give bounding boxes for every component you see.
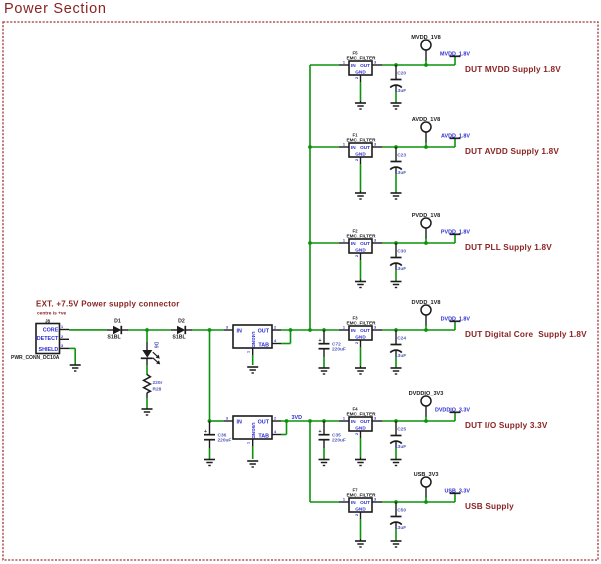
svg-text:1: 1 [343, 239, 345, 243]
svg-text:GND: GND [251, 428, 256, 439]
note centre is +ve [37, 311, 67, 317]
svg-text:IN: IN [237, 329, 242, 335]
capacitor C35 220uF [319, 421, 346, 466]
junction rail row5 [308, 419, 312, 423]
svg-text:EMC_FILTER: EMC_FILTER [346, 234, 376, 239]
svg-text:OUT: OUT [360, 145, 370, 150]
svg-text:C50: C50 [397, 508, 406, 514]
svg-text:AVDD_1.8V: AVDD_1.8V [441, 134, 470, 140]
junction power flag DVDDIO_3V3 [424, 419, 428, 423]
junction LED branch [145, 328, 149, 332]
svg-text:GND: GND [355, 426, 366, 431]
svg-text:1: 1 [343, 143, 345, 147]
junction C36 tap [208, 419, 212, 423]
svg-text:2: 2 [61, 335, 63, 339]
wire U5 TAB loop [281, 421, 287, 435]
svg-text:GND: GND [355, 335, 366, 340]
wire F2 OUT to net [382, 242, 455, 244]
svg-text:USB Supply: USB Supply [465, 502, 514, 511]
label PWR_CONN_DC10A [11, 355, 60, 361]
wire F5 OUT to net [382, 64, 455, 66]
svg-text:2: 2 [274, 417, 276, 421]
EMC filter F2 [339, 229, 382, 258]
ground F2 [355, 253, 366, 288]
svg-text:3: 3 [374, 326, 376, 330]
svg-text:C24: C24 [397, 336, 406, 342]
svg-text:4: 4 [274, 430, 277, 434]
svg-text:2: 2 [355, 342, 359, 344]
svg-text:1: 1 [343, 498, 345, 502]
svg-text:EMC_FILTER: EMC_FILTER [346, 493, 376, 498]
wire rail to F7 IN [310, 501, 339, 503]
regulator U5 [224, 416, 281, 446]
svg-text:MVDD_1.8V: MVDD_1.8V [440, 52, 470, 58]
svg-text:IN: IN [351, 500, 356, 505]
svg-text:EMC_FILTER: EMC_FILTER [346, 412, 376, 417]
wire R28 to ground [146, 393, 148, 409]
ground F1 [355, 157, 366, 199]
wire F3 OUT to net [382, 329, 455, 331]
svg-text:TAB: TAB [258, 343, 269, 349]
svg-text:C23: C23 [397, 153, 406, 159]
svg-text:220uF: 220uF [332, 347, 346, 353]
svg-text:1: 1 [343, 326, 345, 330]
svg-text:2: 2 [355, 255, 359, 257]
wire rail to F2 IN [310, 242, 339, 244]
svg-text:CORE: CORE [43, 328, 59, 334]
capacitor C36 220uF [204, 421, 231, 466]
wire F1 OUT to net [382, 146, 455, 148]
svg-text:3: 3 [226, 326, 228, 330]
svg-text:3: 3 [374, 498, 376, 502]
wire vertical rail 1V8 [309, 65, 311, 330]
svg-text:3: 3 [374, 143, 376, 147]
svg-text:220uF: 220uF [332, 438, 346, 444]
svg-text:centre is +ve: centre is +ve [37, 311, 67, 317]
svg-text:1: 1 [61, 325, 63, 329]
EMC filter F1 [339, 133, 382, 162]
junction power flag MVDD_1V8 [424, 63, 428, 67]
junction U5 TAB-OUT [285, 419, 289, 423]
svg-text:DVDDIO_3.3V: DVDDIO_3.3V [435, 408, 470, 414]
wire junction to LED D6 [146, 330, 148, 342]
power flag DVDDIO_3V3 [409, 391, 444, 421]
junction cap C50 [394, 500, 398, 504]
svg-text:3: 3 [374, 61, 376, 65]
wire U4 TAB loop [281, 330, 291, 344]
junction power flag AVDD_1V8 [424, 145, 428, 149]
svg-text:C20: C20 [397, 71, 406, 77]
net label AVDD_1.8V [441, 134, 470, 148]
power flag DVDD_1V8 [412, 300, 441, 330]
ground J8 shield [70, 365, 81, 371]
junction power flag PVDD_1V8 [424, 241, 428, 245]
wire rail to F1 IN [310, 146, 339, 148]
ground F7 [355, 512, 366, 547]
junction cap C30 [394, 241, 398, 245]
svg-text:GND: GND [355, 248, 366, 253]
net label DVDD_1.8V [441, 317, 471, 331]
EMC filter F5 [339, 51, 382, 80]
svg-text:GND: GND [355, 507, 366, 512]
svg-text:D6: D6 [153, 342, 159, 349]
svg-text:DUT Digital Core Supply 1.8V: DUT Digital Core Supply 1.8V [465, 330, 587, 339]
svg-text:D2: D2 [178, 319, 185, 325]
svg-text:S1BL: S1BL [172, 335, 186, 341]
svg-text:1: 1 [343, 417, 345, 421]
svg-text:C36: C36 [218, 432, 227, 438]
wire J8 shield to ground [69, 348, 75, 365]
svg-text:Power Section: Power Section [4, 1, 107, 17]
power flag AVDD_1V8 [412, 117, 441, 147]
wire U5 OUT 3VD [281, 420, 339, 422]
svg-text:EXT. +7.5V Power supply connec: EXT. +7.5V Power supply connector [36, 300, 180, 309]
junction rail row4 [308, 328, 312, 332]
label DUT MVDD Supply 1.8V [465, 65, 561, 74]
junction cap C25 [394, 419, 398, 423]
label DUT Digital Core Supply 1.8V [465, 330, 587, 339]
wire J8 CORE to D1 [69, 329, 107, 331]
junction cap C23 [394, 145, 398, 149]
svg-text:1: 1 [247, 351, 251, 353]
ground F4 [355, 431, 366, 466]
svg-text:OUT: OUT [258, 329, 270, 335]
junction rail row3 [308, 241, 312, 245]
svg-text:OUT: OUT [360, 328, 370, 333]
svg-text:2: 2 [355, 433, 359, 435]
capacitor C72 220uF [319, 330, 346, 374]
svg-text:R28: R28 [153, 386, 162, 392]
svg-text:DUT I/O Supply 3.3V: DUT I/O Supply 3.3V [465, 421, 548, 430]
wire LED to R28 [146, 365, 148, 375]
svg-text:C35: C35 [332, 432, 341, 438]
EMC filter F7 [339, 488, 382, 517]
diode D2 S1BL [171, 319, 192, 341]
connector J8 PWR_CONN_DC10A [36, 319, 69, 354]
label DUT PLL Supply 1.8V [465, 243, 552, 252]
svg-text:2: 2 [355, 159, 359, 161]
wire D1 to D2 [128, 329, 171, 331]
net label DVDDIO_3.3V [435, 408, 470, 422]
svg-text:C72: C72 [332, 341, 341, 347]
svg-text:IN: IN [351, 419, 356, 424]
svg-text:220r: 220r [153, 380, 163, 386]
svg-text:OUT: OUT [360, 63, 370, 68]
wire rail to F5 IN [310, 64, 339, 66]
wire D2 to U4 IN [192, 329, 224, 331]
svg-text:IN: IN [351, 63, 356, 68]
junction C72 tap [322, 328, 326, 332]
svg-text:OUT: OUT [360, 500, 370, 505]
wire F4 OUT to net [382, 420, 455, 422]
wire rail to U5 IN [210, 330, 225, 421]
svg-text:DVDD_1.8V: DVDD_1.8V [441, 317, 471, 323]
ground U4 [247, 355, 258, 373]
junction U5 branch [208, 328, 212, 332]
junction C35 tap [322, 419, 326, 423]
capacitor C30 13uF [390, 243, 406, 288]
svg-text:3: 3 [374, 417, 376, 421]
power flag PVDD_1V8 [412, 213, 441, 243]
svg-text:C25: C25 [397, 427, 406, 433]
svg-text:2: 2 [355, 514, 359, 516]
svg-text:3VD: 3VD [292, 415, 303, 421]
svg-text:OUT: OUT [360, 419, 370, 424]
capacitor C20 13uF [390, 65, 406, 109]
svg-text:4: 4 [274, 339, 277, 343]
svg-text:1: 1 [247, 442, 251, 444]
wire vertical rail 3V3 to USB [309, 421, 311, 502]
junction cap C20 [394, 63, 398, 67]
svg-text:DETECT: DETECT [37, 336, 59, 342]
svg-text:SHIELD: SHIELD [39, 347, 59, 353]
wire U4 OUT [281, 329, 339, 331]
svg-text:GND: GND [355, 152, 366, 157]
wire F7 OUT to net [382, 501, 455, 503]
title Power Section [4, 1, 107, 17]
svg-text:3: 3 [374, 239, 376, 243]
regulator U4 [224, 325, 281, 355]
junction power flag USB_3V3 [424, 500, 428, 504]
resistor R28 220r [144, 375, 163, 393]
power flag MVDD_1V8 [411, 35, 441, 65]
net label MVDD_1.8V [440, 52, 470, 66]
svg-text:EMC_FILTER: EMC_FILTER [346, 56, 376, 61]
svg-text:IN: IN [351, 241, 356, 246]
svg-text:EMC_FILTER: EMC_FILTER [346, 138, 376, 143]
svg-text:USB_3.3V: USB_3.3V [445, 489, 471, 495]
svg-text:3: 3 [226, 417, 228, 421]
label DUT I/O Supply 3.3V [465, 421, 548, 430]
label USB Supply [465, 502, 514, 511]
svg-text:2: 2 [355, 77, 359, 79]
ground U5 [247, 446, 258, 467]
svg-text:IN: IN [351, 328, 356, 333]
svg-text:OUT: OUT [360, 241, 370, 246]
svg-text:IN: IN [237, 420, 242, 426]
net label 3VD [292, 415, 303, 421]
svg-text:D1: D1 [114, 319, 121, 325]
svg-text:PVDD_1.8V: PVDD_1.8V [441, 230, 470, 236]
svg-text:OUT: OUT [258, 420, 270, 426]
svg-text:DUT AVDD Supply 1.8V: DUT AVDD Supply 1.8V [465, 147, 559, 156]
svg-text:220uF: 220uF [218, 438, 232, 444]
svg-text:1: 1 [343, 61, 345, 65]
power flag USB_3V3 [414, 472, 439, 502]
svg-text:GND: GND [355, 70, 366, 75]
svg-text:3: 3 [61, 344, 63, 348]
svg-text:DUT PLL Supply 1.8V: DUT PLL Supply 1.8V [465, 243, 552, 252]
capacitor C25 13uF [390, 421, 406, 466]
svg-text:IN: IN [351, 145, 356, 150]
capacitor C50 13uF [390, 502, 406, 547]
capacitor C24 13uF [390, 330, 406, 374]
junction power flag DVDD_1V8 [424, 328, 428, 332]
junction cap C24 [394, 328, 398, 332]
svg-text:EMC_FILTER: EMC_FILTER [346, 321, 376, 326]
junction rail row2 [308, 145, 312, 149]
net label USB_3.3V [445, 489, 471, 503]
svg-text:TAB: TAB [258, 434, 269, 440]
net label PVDD_1.8V [441, 230, 470, 244]
ground F5 [355, 75, 366, 109]
junction U4 TAB-OUT [289, 328, 293, 332]
diode D1 S1BL [107, 319, 128, 341]
svg-text:PWR_CONN_DC10A: PWR_CONN_DC10A [11, 355, 60, 361]
LED D6 [141, 342, 160, 365]
svg-text:S1BL: S1BL [107, 335, 121, 341]
svg-text:GND: GND [251, 337, 256, 348]
svg-text:DUT MVDD Supply 1.8V: DUT MVDD Supply 1.8V [465, 65, 561, 74]
ground R28 [142, 409, 153, 415]
label DUT AVDD Supply 1.8V [465, 147, 559, 156]
capacitor C23 13uF [390, 147, 406, 199]
heading EXT. +7.5V Power supply connector [36, 300, 180, 309]
svg-text:C30: C30 [397, 249, 406, 255]
EMC filter F3 [339, 316, 382, 345]
ground F3 [355, 340, 366, 374]
EMC filter F4 [339, 407, 382, 436]
svg-text:2: 2 [274, 326, 276, 330]
